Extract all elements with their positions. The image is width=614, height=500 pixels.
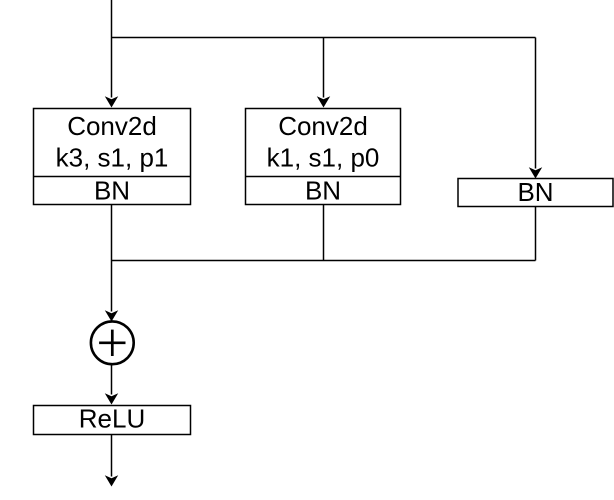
box Conv2d k1,s1,p0 with BN bbox=[246, 109, 401, 206]
wire BN1 down bbox=[111, 205, 113, 261]
wire input vertical bbox=[111, 0, 113, 98]
svg-text:BN: BN bbox=[305, 176, 341, 206]
svg-text:BN: BN bbox=[94, 176, 130, 206]
arrowhead into Conv2d k1 bbox=[317, 96, 330, 107]
wire output bbox=[111, 435, 113, 477]
svg-text:Conv2d: Conv2d bbox=[67, 111, 157, 141]
arrowhead into Conv2d k3 bbox=[105, 96, 118, 107]
arrowhead into adder bbox=[105, 310, 118, 321]
wire BN2 down bbox=[323, 205, 325, 261]
wire BN3 down bbox=[535, 207, 537, 261]
svg-text:ReLU: ReLU bbox=[79, 404, 145, 434]
wire adder to ReLU bbox=[111, 364, 113, 394]
svg-text:Conv2d: Conv2d bbox=[278, 111, 368, 141]
arrowhead into BN identity bbox=[529, 167, 542, 178]
box ReLU bbox=[34, 404, 191, 435]
wire branch horizontal bbox=[112, 37, 536, 39]
svg-text:k1, s1, p0: k1, s1, p0 bbox=[267, 143, 380, 173]
arrowhead into ReLU bbox=[105, 393, 118, 404]
box BN identity branch bbox=[458, 177, 613, 207]
wire branch 2 vertical bbox=[323, 38, 325, 98]
svg-text:BN: BN bbox=[517, 177, 553, 207]
wire merge horizontal bbox=[112, 260, 536, 262]
arrowhead output bbox=[105, 475, 118, 486]
wire branch 3 vertical bbox=[535, 38, 537, 169]
svg-text:k3, s1, p1: k3, s1, p1 bbox=[56, 143, 169, 173]
box Conv2d k3,s1,p1 with BN bbox=[34, 109, 191, 206]
adder circle plus bbox=[91, 321, 134, 364]
wire merge to adder bbox=[111, 261, 113, 312]
